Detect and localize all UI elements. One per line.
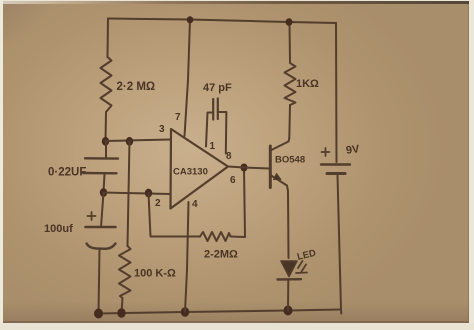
wire bottom ground rail xyxy=(99,310,342,314)
node top-right junction dot xyxy=(286,18,293,26)
wire left vertical to R1 xyxy=(107,19,110,58)
transistor Q1 base bar xyxy=(269,146,272,188)
wire collector to R4 xyxy=(288,105,291,138)
LED D1 arrow base stroke xyxy=(296,272,307,275)
svg-text:2: 2 xyxy=(155,198,161,209)
node D junction dot xyxy=(145,189,152,198)
svg-text:0·22UF: 0·22UF xyxy=(48,167,86,179)
svg-text:1KΩ: 1KΩ xyxy=(296,78,319,90)
wire emitter to LED xyxy=(287,191,290,258)
wire battery to ground rail xyxy=(338,175,342,314)
wire node B down to R2 xyxy=(128,141,130,246)
label battery plus xyxy=(322,148,330,156)
wire right side down to battery xyxy=(335,23,338,162)
wire C2 to ground rail xyxy=(99,249,100,313)
label C2 plus xyxy=(88,212,96,220)
svg-text:100 K-Ω: 100 K-Ω xyxy=(134,268,176,280)
capacitor C1 0.22uF xyxy=(105,141,107,159)
svg-text:4: 4 xyxy=(192,199,198,210)
wire pin3 rail xyxy=(106,140,171,142)
svg-text:BO548: BO548 xyxy=(275,155,305,166)
wire top rail xyxy=(108,19,336,24)
svg-text:2-2MΩ: 2-2MΩ xyxy=(204,249,238,261)
wire output to base xyxy=(228,167,270,169)
resistor R2 100K xyxy=(119,246,131,313)
node E junction dot xyxy=(240,164,247,172)
svg-text:2·2 MΩ: 2·2 MΩ xyxy=(117,81,156,93)
battery BT1 negative plate xyxy=(327,172,345,175)
node I junction dot xyxy=(284,306,293,316)
svg-text:CA3130: CA3130 xyxy=(173,167,208,178)
svg-text:47 pF: 47 pF xyxy=(203,82,232,94)
svg-text:LED: LED xyxy=(296,248,317,263)
svg-text:100uf: 100uf xyxy=(44,223,73,235)
wire pin2 rail xyxy=(104,193,171,195)
node H junction dot xyxy=(181,307,189,316)
transistor Q1 collector xyxy=(270,138,289,151)
node top junction dot pin7 xyxy=(187,16,194,23)
svg-text:8: 8 xyxy=(226,151,232,162)
resistor R3 2.2M feedback xyxy=(200,232,231,241)
svg-text:9V: 9V xyxy=(345,143,361,157)
node A junction dot xyxy=(102,137,109,146)
resistor R1 2.2M xyxy=(101,57,112,141)
wire feedback up to output xyxy=(231,168,246,238)
node G junction dot xyxy=(117,308,125,317)
node C junction dot xyxy=(100,188,107,197)
capacitor C2 100uF xyxy=(101,193,104,228)
op-amp U1 CA3130 triangle xyxy=(171,129,229,209)
battery BT1 positive plate xyxy=(321,163,350,165)
svg-text:3: 3 xyxy=(159,124,165,135)
svg-text:1: 1 xyxy=(210,141,216,152)
svg-text:6: 6 xyxy=(230,175,236,186)
LED D1 cathode bar xyxy=(278,278,302,281)
svg-text:7: 7 xyxy=(175,112,181,123)
capacitor C3 47pF xyxy=(206,113,213,147)
node B junction dot xyxy=(126,137,133,146)
LED D1 triangle xyxy=(281,261,297,277)
transistor Q1 emitter xyxy=(270,175,288,191)
node F junction dot xyxy=(94,309,103,319)
wire pin4 to ground xyxy=(185,202,189,312)
resistor R4 1K xyxy=(285,23,296,105)
wire LED to ground xyxy=(287,280,289,311)
transistor Q1 emitter arrow xyxy=(274,174,282,180)
LED D1 light arrows xyxy=(298,261,306,272)
wire feedback from node D xyxy=(149,193,201,237)
wire pin7 from top rail xyxy=(185,20,191,137)
